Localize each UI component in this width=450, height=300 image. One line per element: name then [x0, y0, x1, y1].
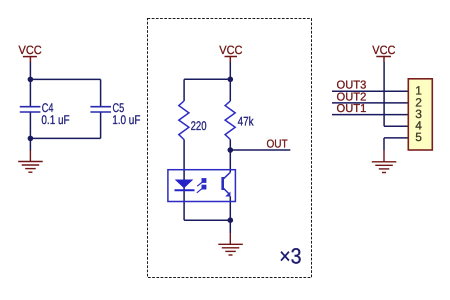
- svg-text:×3: ×3: [279, 244, 301, 269]
- svg-text:OUT1: OUT1: [337, 103, 367, 115]
- svg-text:OUT: OUT: [267, 139, 288, 151]
- svg-text:OUT2: OUT2: [337, 91, 367, 103]
- svg-text:47k: 47k: [238, 114, 255, 128]
- svg-text:VCC: VCC: [19, 43, 42, 57]
- svg-text:1.0 uF: 1.0 uF: [112, 113, 140, 127]
- svg-text:VCC: VCC: [372, 43, 395, 57]
- svg-text:5: 5: [415, 130, 422, 144]
- svg-text:220: 220: [191, 119, 207, 133]
- svg-text:0.1 uF: 0.1 uF: [41, 113, 69, 127]
- svg-text:OUT3: OUT3: [337, 80, 367, 92]
- svg-text:VCC: VCC: [219, 43, 242, 57]
